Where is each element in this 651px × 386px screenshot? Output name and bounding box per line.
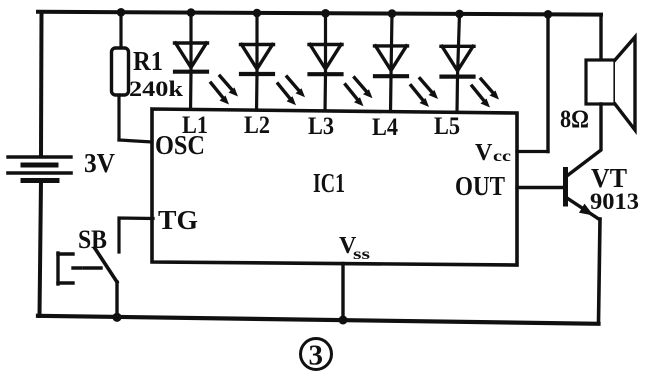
wire bottom rail (38, 316, 599, 324)
svg-text:V: V (475, 140, 493, 166)
svg-text:8Ω: 8Ω (560, 106, 589, 133)
LED L2 light arrows (278, 77, 305, 106)
wire Vcc riser (546, 14, 549, 151)
svg-text:240k: 240k (129, 76, 184, 101)
LED L3 (309, 13, 342, 113)
wire OSC pin to R1 (119, 140, 153, 142)
wire speaker feed (599, 15, 602, 60)
svg-text:L1: L1 (182, 112, 208, 139)
node junction L1 top (187, 8, 196, 17)
LED L1 light arrows (211, 76, 238, 105)
svg-text:OUT: OUT (455, 171, 505, 201)
svg-text:R1: R1 (133, 46, 163, 76)
svg-text:ss: ss (353, 246, 370, 263)
node junction L2 top (253, 9, 262, 18)
speaker BL 8ohm (586, 37, 635, 130)
wire top rail (38, 12, 601, 15)
node junction L5 top (455, 10, 464, 19)
svg-text:L3: L3 (308, 113, 334, 140)
LED L4 light arrows (411, 79, 438, 108)
node junction Vcc top (544, 10, 553, 19)
svg-text:9013: 9013 (590, 189, 639, 214)
LED L3 light arrows (346, 78, 373, 107)
wire emitter to bottom rail (599, 219, 601, 322)
op-amp IC1 box (152, 109, 517, 265)
svg-text:IC1: IC1 (313, 168, 345, 198)
wire TG pin (119, 218, 153, 252)
LED L5 (441, 14, 474, 113)
svg-text:TG: TG (158, 205, 198, 235)
svg-text:L5: L5 (434, 113, 460, 140)
svg-text:L2: L2 (244, 112, 270, 139)
node junction R1 top (117, 8, 126, 17)
LED L4 (375, 14, 408, 113)
wire left rail upper (39, 12, 44, 155)
svg-text:3: 3 (309, 340, 324, 372)
svg-text:cc: cc (493, 148, 511, 165)
node junction L3 top (321, 9, 330, 18)
LED L5 light arrows (472, 79, 499, 108)
node junction L4 top (388, 9, 397, 18)
resistor R1 (112, 12, 129, 140)
svg-text:L4: L4 (372, 114, 398, 141)
battery GB 3V (8, 157, 71, 181)
figure number 3 circled (301, 339, 332, 372)
switch SB (58, 249, 117, 318)
wire Vcc pin to riser (517, 150, 548, 153)
wire left rail lower (40, 181, 42, 316)
wire collector lead (566, 104, 602, 177)
node junction SB bottom (112, 313, 121, 322)
transistor VT 9013 (517, 170, 600, 220)
LED L2 (241, 13, 274, 113)
node junction Vss bottom (339, 316, 348, 325)
LED L1 (175, 13, 208, 113)
svg-text:3V: 3V (84, 148, 115, 178)
svg-text:SB: SB (78, 225, 107, 254)
wire Vss to bottom rail (341, 264, 344, 321)
